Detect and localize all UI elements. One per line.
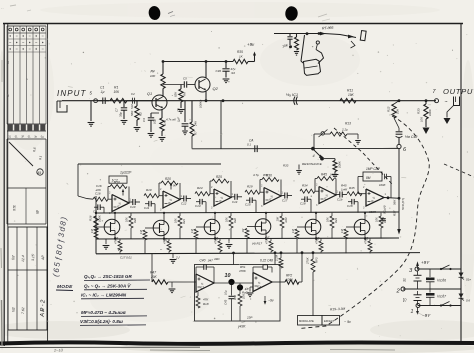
output jack ground <box>444 106 454 125</box>
svg-text:N2: N2 <box>12 307 16 312</box>
svg-text:5CR (K?): 5CR (K?) <box>401 198 405 210</box>
FET Q4 source wire <box>114 234 116 239</box>
svg-text:0.б: 0.б <box>466 299 470 303</box>
capacitor C18 stage 5 <box>300 196 311 212</box>
pencil tick near left blob <box>168 12 175 17</box>
svg-text:R37: R37 <box>393 210 397 216</box>
resistor R5 on Q1 emitter <box>159 109 167 141</box>
svg-text:MF≈0.47Ω – 4.2ыωα: MF≈0.47Ω – 4.2ыωα <box>81 310 127 315</box>
label 1/2B C42 <box>405 135 417 139</box>
switch on bottom rail <box>440 302 452 307</box>
trimmer circle on R13 row <box>319 130 328 138</box>
resistor R1 <box>110 99 127 103</box>
minus 9V near boxes <box>344 320 351 324</box>
svg-text:IC: IC <box>168 201 171 205</box>
svg-text:▫▫: ▫▫ <box>160 248 162 252</box>
capacitor near FET6 <box>380 205 386 222</box>
resistor 470K below Q7 <box>265 238 274 254</box>
bias line vertical x399 <box>398 149 400 230</box>
capacitor C9 stage 1 <box>93 204 104 213</box>
svg-text:R19–3.3M: R19–3.3M <box>330 307 346 312</box>
label C1 .1u <box>100 86 105 94</box>
svg-text:R24: R24 <box>334 218 338 223</box>
ground stub above stage 5 <box>283 164 302 175</box>
svg-text:12.4: 12.4 <box>21 255 25 262</box>
node 3 circle <box>409 267 419 274</box>
resistor 470K below Q4 <box>114 238 123 254</box>
resistor 470K below Q5 <box>163 238 172 254</box>
svg-text:0.1μ(4): 0.1μ(4) <box>383 205 387 214</box>
svg-text:− 9ν: − 9ν <box>344 320 351 324</box>
svg-text:EFFECT: EFFECT <box>324 319 335 323</box>
left table dotted rows <box>7 35 46 52</box>
wire bus to LFO box <box>232 252 235 265</box>
left lower table grid <box>8 227 47 330</box>
left margin smudge marks <box>1 6 4 345</box>
bias loop vertical under Q2 <box>220 101 222 149</box>
capacitor C17 coupling <box>281 193 292 203</box>
svg-text:2–1д: 2–1д <box>53 348 64 353</box>
label output node 7 <box>433 89 437 95</box>
svg-text:R50: R50 <box>233 295 237 300</box>
FET Q8 gate resistor <box>291 227 305 253</box>
capacitor C1 <box>98 98 110 104</box>
label RP2 100K <box>286 274 294 282</box>
wire bus to LFO box right <box>274 251 277 264</box>
svg-text:Q₄ ~ Q₈ → 2SK-30A Ѷ: Q₄ ~ Q₈ → 2SK-30A Ѷ <box>84 283 131 289</box>
feedback resistor R45 stage 5 <box>315 173 338 196</box>
wire dot up to R13 row <box>314 134 321 149</box>
pin marks stage 6 <box>363 186 387 210</box>
svg-text:R29: R29 <box>247 185 253 189</box>
switch on top rail <box>440 265 452 270</box>
capacitor C4 1uF <box>177 101 189 135</box>
svg-text:C15: C15 <box>245 203 251 207</box>
FET Q5 phase stage <box>153 220 169 241</box>
punch hole blob left <box>148 5 161 20</box>
dashed stub near output <box>444 164 474 177</box>
label R13 2.2k <box>341 122 351 132</box>
svg-text:C17: C17 <box>282 199 288 203</box>
svg-text:Q₁,Q₂ → 2SC-1815 GR: Q₁,Q₂ → 2SC-1815 GR <box>84 274 132 279</box>
bus wire lower (gate bias bus) <box>96 253 420 254</box>
svg-text:R25: R25 <box>216 175 222 179</box>
label 4.7u W8 above stage 4 <box>253 173 268 177</box>
FET Q8 drain wire <box>315 213 317 221</box>
svg-text:INPUT: INPUT <box>57 89 87 98</box>
IMP CAP box with 8M <box>363 172 387 187</box>
+9V supply label <box>416 260 430 269</box>
bus wire middle (source bus) <box>96 238 399 239</box>
bias line arrow <box>397 229 401 235</box>
svg-text:RЗ3: RЗ3 <box>283 164 289 168</box>
svg-text:OUTPUT: OUTPUT <box>443 87 474 96</box>
note line IC <box>81 293 144 299</box>
left column wire of phase row <box>95 196 97 254</box>
input ground stub <box>88 101 95 126</box>
svg-text:R45: R45 <box>349 186 355 190</box>
svg-text:270K: 270K <box>306 257 310 265</box>
punch hole blob right <box>285 6 299 21</box>
resistor 470K below Q6 <box>214 238 223 254</box>
wire Q1 collector <box>162 89 164 98</box>
resistor R34 stage 5 input <box>300 184 319 194</box>
FET Q4 gate resistor <box>90 227 104 253</box>
svg-text:AP: AP <box>41 255 45 262</box>
op-amp U3a LFO <box>196 274 214 292</box>
svg-text:C18: C18 <box>347 204 353 208</box>
FET Q4 phase stage <box>104 219 120 240</box>
wire x302 LFO out to bus <box>301 251 304 282</box>
svg-text:10: 10 <box>225 273 231 279</box>
wire footswitch to plug <box>360 31 366 41</box>
ground near R47 <box>169 282 176 293</box>
op-amp U3b LFO <box>253 273 272 292</box>
label R11 19K <box>347 89 355 97</box>
svg-text:1MP CAP: 1MP CAP <box>366 167 381 171</box>
ground at A2 inverting input <box>247 287 254 297</box>
resistor 10K right of Q4 <box>125 213 138 239</box>
FET Q6 drain wire <box>214 213 216 221</box>
svg-text:4.7μ: 4.7μ <box>253 173 259 177</box>
resistor R24 stage 3 input <box>195 186 214 196</box>
MODULATE box <box>298 316 323 326</box>
FET Q7 phase stage <box>255 219 271 240</box>
dashed boundary outer curve <box>299 116 429 329</box>
svg-text:IC: IC <box>269 198 272 202</box>
resistor R13 <box>325 132 359 136</box>
resistor R16 100K on left column <box>89 214 102 230</box>
FET Q8 source wire <box>315 234 317 239</box>
svg-text:RESONANCE: RESONANCE <box>302 162 323 166</box>
svg-text:½ₐ IC1: ½ₐ IC1 <box>286 92 298 97</box>
capacitor C13 stage 3 <box>195 199 206 213</box>
svg-text:R47: R47 <box>150 271 156 275</box>
resonance pot 100K to ground <box>324 159 342 179</box>
FET Q7 source wire <box>265 233 267 239</box>
svg-text:/10: /10 <box>230 71 235 75</box>
pin marks stage 3 <box>211 186 234 210</box>
node 2 circle <box>396 287 406 295</box>
feedback wire lower <box>78 163 221 165</box>
wire R47 to op-amp A1 <box>168 281 196 283</box>
capacitor C15 stage 4 <box>245 197 256 212</box>
svg-text:470K: 470K <box>239 269 247 273</box>
pin marks stage 1 <box>109 192 132 216</box>
resistor R35 <box>233 59 248 63</box>
label 56K R37 rotated <box>393 198 406 216</box>
svg-text:C1b: C1b <box>337 198 343 202</box>
FET Q6 phase stage <box>204 219 220 240</box>
svg-text:R25: R25 <box>383 218 387 223</box>
wire A1 output to A2 <box>214 283 253 288</box>
svg-text:R12: R12 <box>387 106 391 112</box>
svg-text:7.62: 7.62 <box>21 307 25 314</box>
resistor R11 <box>340 99 356 103</box>
svg-text:33p: 33p <box>119 112 123 117</box>
diode lower <box>459 294 471 303</box>
power rail middle <box>403 288 461 290</box>
svg-text:R20: R20 <box>133 218 137 223</box>
dashed boundary inner diagonal <box>334 128 392 184</box>
svg-text:C43: C43 <box>224 299 228 305</box>
LFO enclosure box <box>195 265 281 322</box>
op-amp U5 phase stage 5 <box>319 187 336 204</box>
svg-text:C13: C13 <box>195 204 201 208</box>
rotated parenthetical note <box>51 215 69 277</box>
svg-text:IC: IC <box>371 199 374 203</box>
svg-text:C5: C5 <box>183 77 187 81</box>
svg-text:RЗ3: RЗ3 <box>417 108 421 114</box>
border top rule <box>3 23 463 25</box>
svg-text:−9Υ: −9Υ <box>422 313 431 318</box>
svg-text:51P: 51P <box>130 104 134 109</box>
svg-text:−9ν: −9ν <box>268 299 274 303</box>
svg-text:10K: 10K <box>225 217 229 222</box>
bypass wire arrowheads <box>320 32 354 39</box>
note MODE <box>56 284 73 291</box>
left table small scribbles <box>6 60 29 97</box>
svg-text:8M: 8M <box>366 176 371 180</box>
op-amp U3 phase stage 3 <box>214 189 231 206</box>
svg-text:10K: 10K <box>242 294 246 299</box>
svg-text:10K: 10K <box>125 217 129 222</box>
svg-text:C40: C40 <box>200 259 206 263</box>
resistor 10K right of Q8 <box>326 213 339 239</box>
svg-text:1μF: 1μF <box>177 117 181 122</box>
svg-text:R21: R21 <box>182 219 186 224</box>
label 43K below box <box>237 325 246 329</box>
wire R1 to Q1 base <box>127 100 152 102</box>
junction dots on buses <box>95 212 366 252</box>
svg-text:R16: R16 <box>114 181 120 185</box>
svg-text:0.1: 0.1 <box>247 143 251 147</box>
capacitor C5 coupling <box>163 77 195 88</box>
svg-text:10μ: 10μ <box>153 119 157 124</box>
ground stub stage1 area <box>103 239 110 250</box>
svg-text:.047: .047 <box>207 259 213 263</box>
op-amp U4 phase stage 4 <box>264 188 281 205</box>
ic label box near stage 1 <box>109 176 127 183</box>
pin marks stage 5 <box>316 184 339 208</box>
resistor R7 24K <box>190 101 198 149</box>
note line Q1 Q2 <box>84 274 150 281</box>
resistor R12 10K <box>387 101 400 118</box>
FET Q5 source wire <box>163 235 165 239</box>
label 14322F above stage 1 <box>120 171 132 175</box>
pin marks stage 2 <box>160 188 183 212</box>
main signal wire <box>94 100 437 102</box>
svg-text:C14: C14 <box>232 200 238 204</box>
svg-text:01ɘ: 01ɘ <box>466 278 471 282</box>
resistor 10K right of Q5 <box>174 213 187 239</box>
wire Q2 collector to rail <box>205 60 208 78</box>
wire down to R47 <box>151 253 153 282</box>
label C15 51P rotated <box>130 104 134 109</box>
svg-text:C2: C2 <box>131 92 135 96</box>
svg-text:316: 316 <box>12 205 16 211</box>
resistor R47 <box>152 280 168 284</box>
table right rail full height <box>47 24 49 345</box>
battery B2 <box>403 291 422 306</box>
electrolytic cap at bypass left <box>287 34 292 49</box>
node 1 circle <box>411 304 421 316</box>
RESONANCE label <box>302 162 323 166</box>
supply arrow above stage 2 <box>170 182 177 189</box>
diode upper <box>459 273 472 282</box>
border right rule <box>460 24 462 343</box>
left table lower cells <box>7 188 46 224</box>
capacitor C10 coupling <box>129 199 140 209</box>
svg-text:3.15: 3.15 <box>31 254 35 261</box>
FET Q5 drain wire <box>163 213 165 222</box>
svg-text:R13: R13 <box>345 122 351 126</box>
bus wire upper (drain bus) <box>96 212 399 213</box>
FET Q9 gate resistor <box>340 227 354 253</box>
minus 9V arrow in LFO <box>264 296 274 305</box>
-9V supply label <box>416 308 431 319</box>
resistor 10K right of Q6 <box>225 213 238 239</box>
right edge column <box>460 269 462 306</box>
footswitch pedal outline <box>301 35 324 75</box>
op-amp U1 phase stage 1 <box>112 195 129 212</box>
capacitor C46 upper <box>426 269 446 289</box>
FET Q4 drain wire <box>114 213 116 221</box>
OUTPUT label <box>443 87 474 96</box>
resistor R29 stage 4 input <box>245 185 264 195</box>
svg-text:45: 45 <box>35 210 39 214</box>
svg-text:10K: 10K <box>326 217 330 222</box>
border bottom band <box>0 342 474 347</box>
resonance feed wire <box>192 147 398 151</box>
capacitor CA on resonance wire <box>247 139 257 153</box>
svg-text:R20: R20 <box>165 177 171 181</box>
resistor pulldown 10K <box>294 34 299 56</box>
capacitor C3 10u on Q1 emitter <box>142 113 159 137</box>
svg-text:MODULATE: MODULATE <box>299 319 314 323</box>
feedback resistor R16 stage 1 <box>108 181 129 204</box>
svg-text:2.2M: 2.2M <box>275 254 279 262</box>
svg-text:R16: R16 <box>89 215 93 221</box>
resistor R4 <box>161 74 165 89</box>
output jack <box>445 97 460 106</box>
capacitor C14 coupling <box>231 194 242 204</box>
svg-text:C11: C11 <box>144 206 150 210</box>
svg-text:31: 31 <box>6 60 10 64</box>
svg-text:3F: 3F <box>21 136 24 139</box>
feedback resistor R20 stage 2 <box>159 177 180 200</box>
border left rule <box>4 24 8 347</box>
resistor R2 56K to ground <box>130 101 143 131</box>
FET Q5 gate resistor <box>139 228 153 253</box>
note line Q4 Q8 <box>84 283 147 290</box>
svg-text:~: ~ <box>445 100 448 106</box>
capacitor C7 33p to ground <box>115 101 128 124</box>
capacitor C43 from dot1 <box>224 285 235 321</box>
label 10K pulldown <box>282 43 289 48</box>
svg-text:IC3: IC3 <box>200 286 205 290</box>
vibrato cap and 1/2 IC1 label <box>286 92 298 105</box>
pin marks stage 4 <box>261 185 284 209</box>
svg-text:MODE: MODE <box>57 284 73 290</box>
resistor RP2 <box>272 280 302 284</box>
FET Q7 gate resistor <box>241 227 255 254</box>
wire input jack to node <box>62 100 94 102</box>
output node circle <box>435 99 439 103</box>
handwriting below bottom border <box>53 348 395 353</box>
feedback resistor R25 stage 3 <box>210 175 231 198</box>
feedback wire left vertical <box>78 164 93 199</box>
FET Q8 phase stage <box>305 219 321 240</box>
capacitor C30 47u/10 to ground <box>216 60 236 83</box>
FET Q6 source wire <box>214 234 216 239</box>
INPUT label <box>57 89 87 98</box>
svg-text:R45: R45 <box>321 173 327 177</box>
LED indicator dot 2 <box>237 284 249 291</box>
left table middle section with diagonal <box>7 139 46 188</box>
svg-text:100K: 100K <box>338 160 342 168</box>
power rail top <box>417 268 461 270</box>
labels below gate bus <box>120 256 220 262</box>
ground hang from gate bus <box>170 253 177 263</box>
left table column grid <box>7 26 46 124</box>
resistor R50 vertical <box>233 291 246 321</box>
svg-text:Q1: Q1 <box>147 92 152 96</box>
battery B1 <box>403 271 422 289</box>
transistor Q1 <box>147 92 167 110</box>
svg-text:C17 0.01: C17 0.01 <box>120 256 132 260</box>
capacitor C12 coupling <box>180 196 191 206</box>
feedback cap C40 <box>196 264 214 283</box>
svg-text:43Ω: 43Ω <box>214 257 220 261</box>
svg-text:330R: 330R <box>369 210 376 214</box>
svg-text:IC: IC <box>324 197 327 201</box>
svg-text:(4) R17: (4) R17 <box>252 242 262 246</box>
bypass wire <box>274 32 356 37</box>
footswitch terminal circle <box>316 41 319 50</box>
svg-text:C16: C16 <box>95 192 101 196</box>
EFFECT box <box>322 316 340 326</box>
svg-text:C30: C30 <box>216 69 222 73</box>
label 23P inside box <box>246 316 252 320</box>
svg-text:RT-д66: RT-д66 <box>322 26 334 31</box>
feedback resistor R30 stage 4 <box>260 174 281 197</box>
svg-text:VЗℓ=0.5(4.2я)· 0.8ш: VЗℓ=0.5(4.2я)· 0.8ш <box>80 319 123 324</box>
svg-text:4.7κ ѡб: 4.7κ ѡб <box>166 118 176 122</box>
svg-text:R6: R6 <box>183 92 187 96</box>
svg-text:IC: IC <box>117 205 120 209</box>
label R47 20K <box>150 271 158 280</box>
op-amp U2 phase stage 2 <box>163 191 180 208</box>
FET Q9 phase stage <box>354 219 370 240</box>
label R19 3.3M <box>330 307 346 312</box>
capacitor C31 to ground <box>355 134 361 144</box>
node 6 circle <box>397 138 407 154</box>
svg-text:10K: 10K <box>276 217 280 222</box>
svg-text:+9ν: +9ν <box>247 42 255 47</box>
svg-text:R2: R2 <box>139 112 143 116</box>
left table hatched row <box>7 124 46 139</box>
capacitor C42 electrolytic <box>394 118 402 137</box>
transistor Q2 <box>195 77 219 92</box>
resistor 10K right of Q7 <box>276 213 289 239</box>
FET Q9 drain wire <box>364 213 366 221</box>
label RaC4 mark <box>242 291 250 295</box>
svg-text:½Cд6: ½Cд6 <box>437 279 446 283</box>
resistor R6 82K <box>174 85 187 114</box>
feedback cap C48 square <box>253 265 272 273</box>
stage 6 output wire <box>384 196 400 199</box>
